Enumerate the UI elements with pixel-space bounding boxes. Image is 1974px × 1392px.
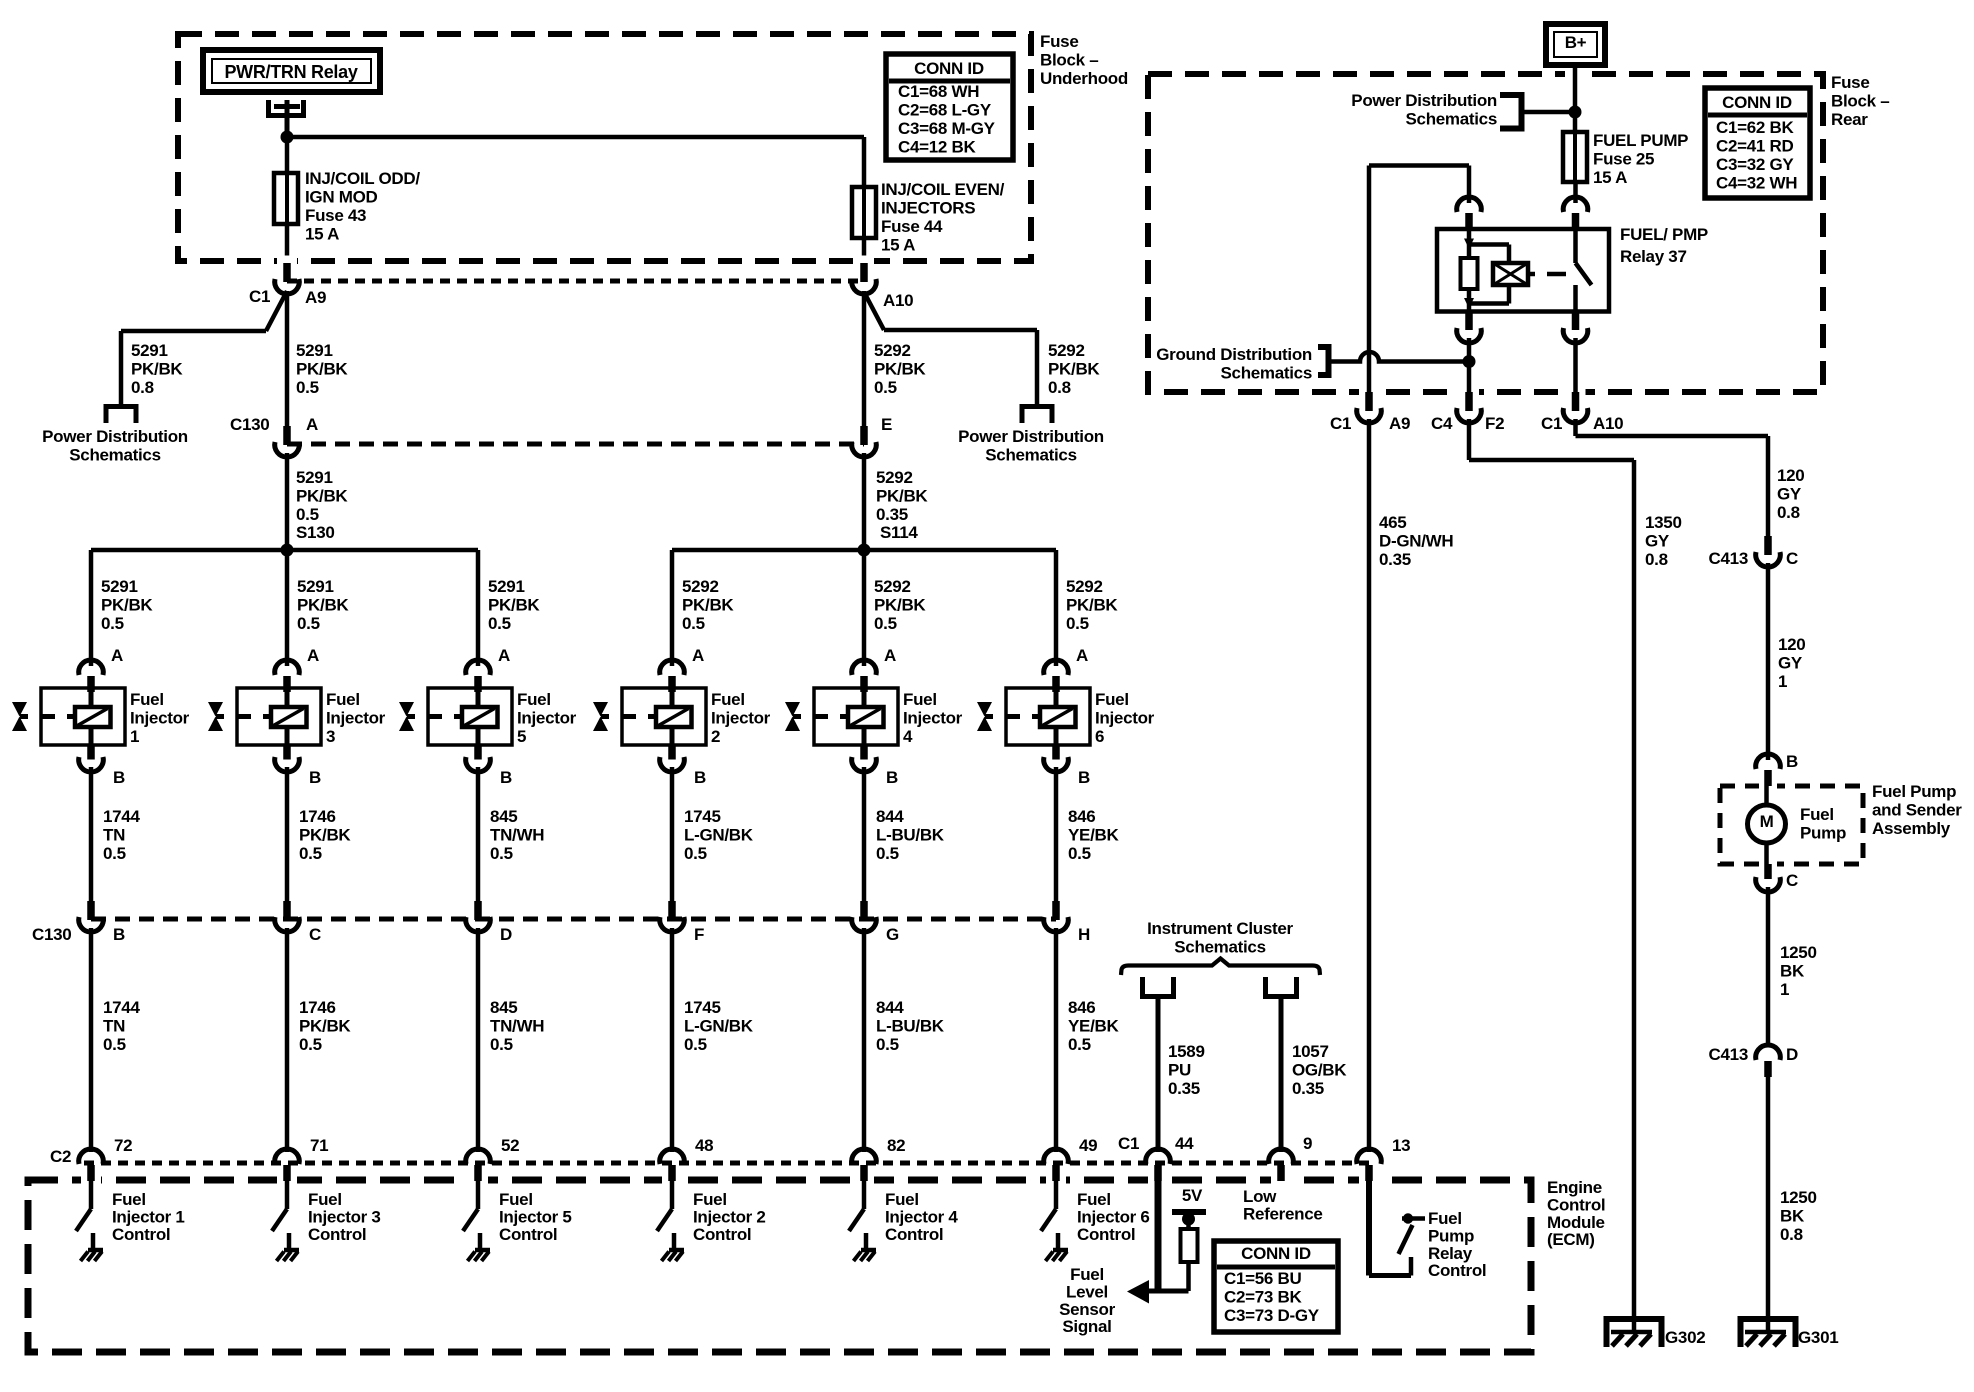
svg-text:PK/BK: PK/BK (488, 596, 540, 615)
wire feed to injector 6 (1054, 550, 1059, 666)
wire feed to injector 5 (476, 550, 481, 666)
svg-text:and Sender: and Sender (1872, 801, 1962, 820)
wire 5292 A10 to C130-E (862, 291, 867, 427)
svg-text:1744: 1744 (103, 998, 140, 1017)
ECM pin 82 connector (852, 1149, 877, 1164)
connector C130 pin G (860, 901, 868, 920)
svg-text:0.5: 0.5 (103, 1035, 126, 1054)
injector 4 pin B connector (860, 745, 868, 760)
fuel injector 4 valve symbol (785, 702, 800, 717)
ECM driver switch injector 2 control (670, 1181, 675, 1209)
svg-text:A9: A9 (305, 288, 326, 307)
svg-text:15 A: 15 A (881, 236, 915, 255)
CONN ID table rear (1705, 88, 1810, 198)
svg-text:0.5: 0.5 (684, 844, 707, 863)
svg-text:Control: Control (499, 1225, 557, 1244)
svg-text:B: B (1786, 752, 1798, 771)
rear block pin C1 A9 connector (1365, 392, 1373, 411)
svg-text:6: 6 (1095, 727, 1104, 746)
connector C413 pin D (1756, 1045, 1781, 1060)
fuel injector 3 coil (271, 707, 307, 727)
svg-text:D-GN/WH: D-GN/WH (1379, 532, 1453, 551)
svg-text:C413: C413 (1709, 1045, 1748, 1064)
svg-text:Assembly: Assembly (1872, 819, 1951, 838)
svg-text:C3=68 M-GY: C3=68 M-GY (898, 119, 996, 138)
wire splice S130 bus (91, 548, 478, 553)
wire injector 4 control lower (862, 928, 867, 1152)
svg-text:PK/BK: PK/BK (874, 596, 926, 615)
rear block pin C1 A10 connector (1572, 392, 1580, 411)
svg-text:0.5: 0.5 (490, 844, 513, 863)
svg-text:Injector: Injector (711, 709, 771, 728)
wire fuse 44 drop (862, 137, 867, 187)
svg-text:PK/BK: PK/BK (299, 1017, 351, 1036)
svg-text:5291: 5291 (296, 341, 333, 360)
relay 37 coil pin bottom connector (1465, 312, 1473, 331)
fuel level sensor signal arrow (1127, 1280, 1149, 1304)
svg-text:Power Distribution: Power Distribution (958, 427, 1104, 446)
svg-text:Injector 3: Injector 3 (308, 1208, 381, 1227)
svg-text:PK/BK: PK/BK (299, 826, 351, 845)
svg-text:0.8: 0.8 (1780, 1225, 1803, 1244)
svg-text:4: 4 (903, 727, 913, 746)
svg-text:5292: 5292 (874, 577, 911, 596)
fuel pump pin C connector (1764, 864, 1772, 879)
svg-text:1350: 1350 (1645, 513, 1682, 532)
ECM pin 52 connector (466, 1149, 491, 1164)
svg-text:PU: PU (1168, 1061, 1191, 1080)
junction dot fuse feed (281, 131, 294, 144)
svg-text:0.35: 0.35 (1168, 1079, 1200, 1098)
ECM ground injector 2 (669, 1248, 684, 1253)
svg-text:15 A: 15 A (305, 225, 339, 244)
wire PWR/TRN relay to junction (285, 100, 290, 137)
wire ground distribution with hop (1332, 352, 1467, 362)
wire injector 6 control lower (1054, 928, 1059, 1152)
svg-text:120: 120 (1778, 635, 1805, 654)
svg-text:Schematics: Schematics (985, 446, 1077, 465)
svg-text:C1: C1 (1118, 1134, 1139, 1153)
svg-text:C4=32 WH: C4=32 WH (1716, 174, 1797, 193)
svg-text:0.35: 0.35 (1292, 1079, 1324, 1098)
svg-text:Fuel: Fuel (1095, 690, 1129, 709)
svg-text:GY: GY (1777, 485, 1802, 504)
svg-text:Relay: Relay (1428, 1244, 1473, 1263)
ECM ground injector 4 (861, 1248, 876, 1253)
rear block pin C4 F2 connector (1465, 392, 1473, 411)
fuel injector 4 coil (848, 707, 884, 727)
wire fuse 25 to relay switch (1573, 182, 1578, 203)
wire injector 6 control upper (1054, 767, 1059, 902)
ground G301 (1738, 1316, 1799, 1322)
wire feed to injector 1 (89, 550, 94, 666)
svg-text:S130: S130 (296, 523, 335, 542)
svg-text:Fuel: Fuel (711, 690, 745, 709)
svg-text:S114: S114 (880, 523, 918, 542)
svg-text:Reference: Reference (1243, 1205, 1323, 1224)
svg-text:5V: 5V (1182, 1186, 1203, 1205)
svg-text:Control: Control (693, 1225, 751, 1244)
relay 37 switch (1573, 229, 1578, 263)
svg-text:5292: 5292 (874, 341, 911, 360)
svg-text:0.5: 0.5 (876, 1035, 899, 1054)
power distribution fork symbol left (104, 404, 109, 423)
svg-text:C1: C1 (249, 287, 270, 306)
svg-text:TN: TN (103, 826, 125, 845)
wire 120 GY 1 to fuel pump (1766, 563, 1771, 760)
svg-text:Fuel: Fuel (517, 690, 551, 709)
connector C130 pin E (860, 426, 868, 445)
svg-text:13: 13 (1392, 1136, 1410, 1155)
svg-text:844: 844 (876, 998, 904, 1017)
ECM pin 72 connector (79, 1149, 104, 1164)
svg-text:Fuse 43: Fuse 43 (305, 206, 366, 225)
svg-text:49: 49 (1079, 1136, 1097, 1155)
svg-text:PK/BK: PK/BK (296, 487, 348, 506)
relay 37 switch pin bottom connector (1572, 312, 1580, 331)
battery B+ box (1546, 24, 1605, 65)
ground G302 (1604, 1316, 1665, 1322)
wire ECM pin 13 fuel pump relay control (1366, 1181, 1372, 1276)
svg-text:846: 846 (1068, 998, 1095, 1017)
ECM driver switch injector 3 control (285, 1181, 290, 1209)
wire fuel level sensor signal (1155, 1181, 1162, 1291)
svg-text:Control: Control (1547, 1196, 1605, 1215)
connector C130 pin B (87, 901, 95, 920)
svg-text:C1=56 BU: C1=56 BU (1224, 1269, 1301, 1288)
svg-text:A: A (1076, 646, 1088, 665)
svg-text:Block –: Block – (1831, 92, 1889, 111)
svg-text:0.5: 0.5 (296, 505, 319, 524)
svg-text:71: 71 (310, 1136, 328, 1155)
svg-text:Schematics: Schematics (1406, 110, 1498, 129)
ECM pin 13 connector (1357, 1149, 1382, 1164)
svg-text:5291: 5291 (297, 577, 334, 596)
svg-text:0.8: 0.8 (1048, 378, 1071, 397)
svg-text:B: B (309, 768, 321, 787)
svg-text:2: 2 (711, 727, 720, 746)
svg-text:L-BU/BK: L-BU/BK (876, 826, 945, 845)
wire injector 5 control upper (476, 767, 481, 902)
svg-text:BK: BK (1780, 1207, 1805, 1226)
svg-text:PK/BK: PK/BK (297, 596, 349, 615)
svg-text:1745: 1745 (684, 807, 721, 826)
power distribution bracket (1519, 92, 1525, 132)
svg-text:120: 120 (1777, 466, 1804, 485)
svg-text:Rear: Rear (1831, 110, 1868, 129)
svg-text:0.5: 0.5 (684, 1035, 707, 1054)
svg-text:B: B (113, 925, 125, 944)
wire 1250 BK 1 (1766, 887, 1771, 1047)
svg-text:1250: 1250 (1780, 943, 1817, 962)
svg-text:BK: BK (1780, 962, 1805, 981)
ECM ground injector 1 (88, 1248, 103, 1253)
svg-text:Injector: Injector (326, 709, 386, 728)
svg-text:INJ/COIL EVEN/: INJ/COIL EVEN/ (881, 180, 1005, 199)
ECM connector row dotted line (84, 1161, 1369, 1166)
svg-text:C: C (1786, 549, 1798, 568)
svg-text:0.35: 0.35 (876, 505, 908, 524)
svg-text:Fuel: Fuel (112, 1190, 146, 1209)
wire fuse 44 to C1 pin A10 (862, 238, 867, 266)
svg-text:0.5: 0.5 (296, 378, 319, 397)
svg-text:845: 845 (490, 807, 517, 826)
svg-text:Fuse 25: Fuse 25 (1593, 150, 1654, 169)
PWR/TRN Relay box (203, 50, 380, 92)
fuel injector 5 coil (462, 707, 498, 727)
svg-text:Schematics: Schematics (1174, 938, 1266, 957)
svg-text:5291: 5291 (131, 341, 168, 360)
svg-text:A: A (307, 646, 319, 665)
svg-text:0.5: 0.5 (297, 614, 320, 633)
svg-text:Injector 2: Injector 2 (693, 1208, 766, 1227)
svg-text:Injector: Injector (517, 709, 577, 728)
svg-text:C413: C413 (1709, 549, 1748, 568)
svg-text:GY: GY (1645, 532, 1670, 551)
svg-text:0.5: 0.5 (876, 844, 899, 863)
fuse block rear dashed box (1148, 74, 1823, 392)
fuse F44 (852, 187, 876, 238)
svg-text:A10: A10 (883, 291, 913, 310)
svg-text:5291: 5291 (296, 468, 333, 487)
wire junction to fuse 44 (287, 135, 864, 140)
svg-text:1589: 1589 (1168, 1042, 1205, 1061)
svg-text:Fuel: Fuel (903, 690, 937, 709)
svg-text:PK/BK: PK/BK (876, 487, 928, 506)
wire injector 3 control upper (285, 767, 290, 902)
fuel pump motor (1764, 786, 1769, 807)
svg-text:Level: Level (1066, 1283, 1108, 1302)
wire 120 GY from A10 (1573, 419, 1578, 436)
svg-text:0.5: 0.5 (299, 1035, 322, 1054)
ECM fuel pump relay control switch (1399, 1225, 1413, 1254)
relay contact terminal (266, 100, 271, 118)
svg-text:L-GN/BK: L-GN/BK (684, 1017, 754, 1036)
junction dot power distribution (1569, 106, 1582, 119)
wire fuse 43 to C1 pin A9 (285, 224, 290, 263)
ECM driver switch injector 1 control (89, 1181, 94, 1209)
svg-text:0.5: 0.5 (1066, 614, 1089, 633)
svg-text:1: 1 (130, 727, 139, 746)
wire splice S114 bus (672, 548, 1056, 553)
svg-text:5292: 5292 (682, 577, 719, 596)
svg-text:Block –: Block – (1040, 51, 1098, 70)
svg-text:PK/BK: PK/BK (101, 596, 153, 615)
svg-text:B: B (500, 768, 512, 787)
svg-text:5292: 5292 (876, 468, 913, 487)
svg-text:A: A (111, 646, 123, 665)
svg-text:PK/BK: PK/BK (874, 360, 926, 379)
svg-text:C: C (309, 925, 321, 944)
svg-text:F: F (694, 925, 704, 944)
fuel injector 5 body (428, 688, 512, 745)
svg-text:Low: Low (1243, 1187, 1277, 1206)
border gaps for wire crossings (277, 256, 297, 267)
injector 3 pin B connector (283, 745, 291, 760)
svg-text:52: 52 (501, 1136, 519, 1155)
svg-text:C3=73 D-GY: C3=73 D-GY (1224, 1306, 1320, 1325)
svg-text:5291: 5291 (101, 577, 138, 596)
svg-text:Fuel: Fuel (326, 690, 360, 709)
wire relay coil to ground distribution junction (1467, 338, 1472, 393)
svg-text:5: 5 (517, 727, 526, 746)
svg-text:0.5: 0.5 (682, 614, 705, 633)
svg-text:Fuel: Fuel (1070, 1265, 1104, 1284)
svg-text:15 A: 15 A (1593, 168, 1627, 187)
fuel pump pin B connector (1756, 754, 1781, 769)
svg-text:844: 844 (876, 807, 904, 826)
connector C1 pin A10 (860, 263, 868, 282)
wire B+ to fuse 25 (1573, 65, 1578, 132)
fuel injector 6 coil (1040, 707, 1076, 727)
svg-text:72: 72 (114, 1136, 132, 1155)
svg-text:TN/WH: TN/WH (490, 1017, 544, 1036)
svg-text:Module: Module (1547, 1213, 1605, 1232)
svg-text:Underhood: Underhood (1040, 69, 1128, 88)
svg-text:CONN ID: CONN ID (1241, 1244, 1311, 1263)
svg-text:846: 846 (1068, 807, 1095, 826)
connector row C130 dashed line (287, 442, 864, 447)
svg-text:Control: Control (112, 1225, 170, 1244)
svg-text:Fuel Pump: Fuel Pump (1872, 782, 1956, 801)
svg-text:1744: 1744 (103, 807, 140, 826)
injector 2 pin B connector (668, 745, 676, 760)
svg-text:H: H (1078, 925, 1090, 944)
svg-text:Engine: Engine (1547, 1178, 1602, 1197)
ECM ground injector 3 (284, 1248, 299, 1253)
svg-text:A: A (306, 415, 318, 434)
svg-text:0.5: 0.5 (1068, 844, 1091, 863)
relay 37 coil branch (1467, 229, 1472, 258)
fuel injector 1 valve symbol (12, 702, 27, 717)
wire power distribution to B+ wire (1525, 110, 1576, 115)
svg-text:C130: C130 (230, 415, 269, 434)
svg-text:1746: 1746 (299, 807, 336, 826)
wire junction to fuse 43 (285, 137, 290, 173)
injector 1 pin B connector (87, 745, 95, 760)
svg-text:Fuel: Fuel (693, 1190, 727, 1209)
instrument cluster receptacle left (1140, 977, 1145, 997)
svg-text:5292: 5292 (1048, 341, 1085, 360)
connector row C130 lower dashed line (91, 917, 1056, 922)
junction dot ground distribution (1463, 355, 1476, 368)
svg-text:0.35: 0.35 (1379, 550, 1411, 569)
svg-text:C130: C130 (32, 925, 71, 944)
svg-text:Fuel: Fuel (308, 1190, 342, 1209)
svg-text:YE/BK: YE/BK (1068, 1017, 1119, 1036)
svg-text:OG/BK: OG/BK (1292, 1061, 1347, 1080)
svg-text:M: M (1760, 812, 1774, 831)
svg-text:44: 44 (1175, 1134, 1194, 1153)
ECM pin 49 connector (1044, 1149, 1069, 1164)
svg-text:C: C (1786, 871, 1798, 890)
svg-text:1746: 1746 (299, 998, 336, 1017)
connector C130 pin H (1052, 901, 1060, 920)
svg-text:C4=12 BK: C4=12 BK (898, 138, 976, 157)
wire 465 D-GN/WH to ECM pin 13 (1367, 419, 1372, 1152)
svg-text:Instrument Cluster: Instrument Cluster (1147, 919, 1293, 938)
svg-text:CONN ID: CONN ID (1722, 93, 1792, 112)
svg-text:Signal: Signal (1062, 1317, 1111, 1336)
svg-text:C4: C4 (1431, 414, 1453, 433)
connector C413 pin C (1764, 536, 1772, 555)
svg-text:PK/BK: PK/BK (296, 360, 348, 379)
svg-text:Sensor: Sensor (1059, 1300, 1116, 1319)
fuel injector 2 valve symbol (593, 702, 608, 717)
wire relay switch to A10 (1573, 338, 1578, 393)
wire 5292 branch diagonal to power distribution (864, 292, 884, 330)
svg-text:TN/WH: TN/WH (490, 826, 544, 845)
svg-text:Fuel: Fuel (885, 1190, 919, 1209)
svg-text:Injector 5: Injector 5 (499, 1208, 572, 1227)
svg-text:PWR/TRN Relay: PWR/TRN Relay (224, 62, 357, 82)
wire feed to injector 2 (670, 550, 675, 666)
CONN ID table ECM (1214, 1241, 1338, 1332)
svg-text:Power Distribution: Power Distribution (42, 427, 188, 446)
svg-text:B: B (694, 768, 706, 787)
resistor fuel level sense (1181, 1229, 1198, 1262)
svg-text:A: A (692, 646, 704, 665)
connector row C1 underhood dotted line (287, 279, 864, 284)
wire relay coil feed from 465 column (1369, 163, 1469, 168)
fuse block underhood dashed box (178, 34, 1031, 261)
fuel injector 6 body (1006, 688, 1090, 745)
svg-text:Power Distribution: Power Distribution (1351, 91, 1497, 110)
fuel injector 5 valve symbol (399, 702, 414, 717)
wire 5291 to splice S130 (285, 453, 290, 550)
svg-text:Schematics: Schematics (1221, 364, 1313, 383)
relay 37 coil resistor (1461, 258, 1478, 289)
wire 1250 BK 0.8 to ground G301 (1766, 1077, 1771, 1332)
svg-text:0.5: 0.5 (299, 844, 322, 863)
ECM pin 9 connector (1269, 1149, 1294, 1164)
wire injector 3 control lower (285, 928, 290, 1152)
svg-text:0.8: 0.8 (131, 378, 154, 397)
svg-text:C3=32 GY: C3=32 GY (1716, 155, 1794, 174)
svg-text:E: E (881, 415, 892, 434)
svg-text:C2=68 L-GY: C2=68 L-GY (898, 101, 992, 120)
ECM driver switch injector 6 control (1054, 1181, 1059, 1209)
svg-text:48: 48 (695, 1136, 713, 1155)
svg-text:PK/BK: PK/BK (131, 360, 183, 379)
svg-text:Control: Control (1077, 1225, 1135, 1244)
fuel injector 3 valve symbol (208, 702, 223, 717)
svg-text:Injector: Injector (1095, 709, 1155, 728)
fuel injector 6 valve symbol (977, 702, 992, 717)
svg-text:C2: C2 (50, 1147, 71, 1166)
relay 37 coil X-box (1493, 263, 1528, 285)
svg-text:C2=41 RD: C2=41 RD (1716, 137, 1793, 156)
power distribution fork symbol right (1020, 404, 1025, 423)
svg-text:G: G (886, 925, 899, 944)
svg-text:Pump: Pump (1428, 1227, 1474, 1246)
svg-text:FUEL/ PMP: FUEL/ PMP (1620, 225, 1708, 244)
fuel injector 1 coil (75, 707, 111, 727)
svg-text:PK/BK: PK/BK (682, 596, 734, 615)
relay 37 coil pin top connector (1467, 166, 1472, 204)
wire injector 2 control lower (670, 928, 675, 1152)
svg-text:Fuse: Fuse (1831, 73, 1869, 92)
svg-text:0.5: 0.5 (490, 1035, 513, 1054)
fuel injector 1 body (41, 688, 125, 745)
svg-text:Injector: Injector (903, 709, 963, 728)
svg-text:0.8: 0.8 (1645, 550, 1668, 569)
wire 5291 C1-A9 to C130-A (285, 291, 290, 427)
svg-text:465: 465 (1379, 513, 1406, 532)
wire 5292 to splice S114 (862, 453, 867, 550)
svg-text:0.5: 0.5 (1068, 1035, 1091, 1054)
instrument cluster receptacle right (1263, 977, 1268, 997)
